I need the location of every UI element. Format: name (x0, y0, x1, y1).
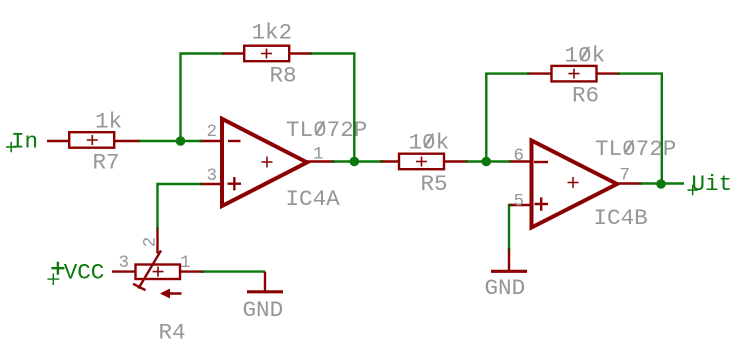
wire R5 to IC4B pin 6 (466, 160, 510, 162)
svg-text:1k2: 1k2 (252, 20, 293, 46)
svg-text:7: 7 (620, 166, 631, 186)
wire IC4B output to Uit (640, 182, 684, 184)
svg-text:3: 3 (119, 253, 130, 273)
wire R6 loop left vertical (486, 74, 528, 162)
svg-text:In: In (11, 129, 38, 155)
wire R4 pin1 to GND (202, 270, 265, 272)
junction node at R7/R8 (176, 136, 186, 146)
node cross +VCC (47, 273, 59, 285)
svg-text:VCC: VCC (64, 260, 105, 286)
resistor R8 (223, 46, 311, 62)
wire IC4A pin3 to R4 wiper (158, 184, 202, 229)
wire IC4B pin5 to GND (509, 205, 512, 250)
svg-text:2: 2 (141, 237, 161, 248)
svg-text:2: 2 (206, 122, 217, 142)
svg-text:R5: R5 (421, 171, 448, 197)
svg-text:TL072P: TL072P (595, 136, 676, 162)
node cross In (6, 142, 17, 153)
svg-text:3: 3 (206, 166, 217, 186)
resistor R5 (380, 154, 466, 170)
svg-text:Uit: Uit (692, 171, 733, 197)
ground GND (near R4) (247, 272, 283, 292)
svg-text:5: 5 (514, 192, 525, 212)
svg-text:GND: GND (243, 297, 284, 323)
junction node at IC4B output (656, 179, 666, 189)
svg-text:R6: R6 (572, 83, 599, 109)
junction node at IC4A output (350, 157, 360, 167)
svg-text:6: 6 (514, 146, 525, 166)
wire R8 right to IC4A output junction (310, 54, 354, 162)
wire R6 right vertical to output junction (618, 74, 662, 184)
svg-text:R4: R4 (159, 320, 186, 346)
svg-text:1: 1 (180, 253, 191, 273)
svg-text:R7: R7 (93, 150, 120, 176)
op-amp U IC4A (201, 119, 332, 206)
svg-text:R8: R8 (270, 63, 297, 89)
ground GND (under IC4B) (491, 250, 527, 272)
wire In to R7 (net segment at y=141) (138, 140, 201, 142)
junction node at R5/R6/IC4B (482, 157, 492, 167)
svg-text:1: 1 (313, 145, 324, 165)
wire joint marks (137, 54, 642, 272)
op-amp U IC4B (510, 141, 640, 228)
trimmer R4 (112, 229, 203, 299)
wire IC4A output to R5 (332, 160, 383, 162)
node cross Uit (688, 185, 699, 196)
resistor R7 (47, 132, 139, 148)
svg-text:TL072P: TL072P (286, 117, 367, 143)
svg-text:1k: 1k (95, 109, 122, 135)
resistor R6 (529, 66, 619, 82)
svg-text:IC4B: IC4B (594, 205, 648, 231)
svg-text:IC4A: IC4A (286, 186, 341, 212)
svg-text:GND: GND (485, 275, 526, 301)
wire R8 loop left vertical (181, 54, 224, 142)
